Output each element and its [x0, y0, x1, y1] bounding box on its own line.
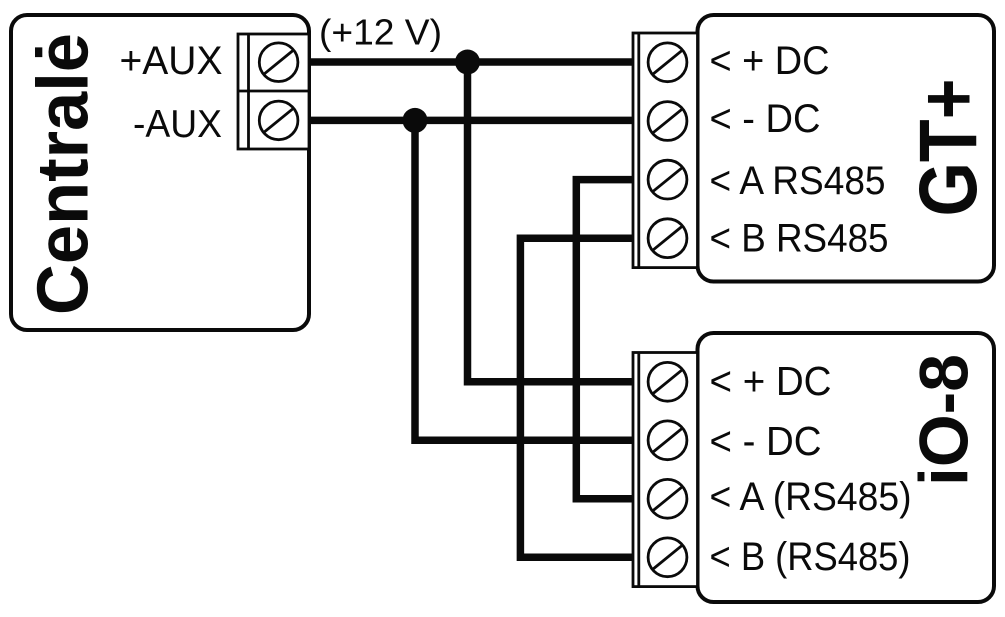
svg-text:< B (RS485): < B (RS485) [710, 535, 911, 579]
svg-text:Centralė: Centralė [23, 33, 104, 315]
terminal block X3 on iO-8 [633, 353, 698, 587]
terminal block X2 on GT+ [633, 33, 698, 268]
screw terminal GT+ +DC [648, 43, 687, 82]
junction J2 (GND) [403, 108, 428, 133]
terminal block X1 on Centrale [238, 34, 309, 149]
svg-text:(+12 V): (+12 V) [319, 12, 442, 53]
svg-text:< + DC: < + DC [710, 39, 830, 83]
svg-text:< A RS485: < A RS485 [710, 159, 886, 203]
screw terminal iO-8 B RS485 [648, 538, 687, 577]
box iO-8 (expander module) [698, 333, 995, 602]
box GT+ (expander module) [698, 15, 995, 282]
wire GND branch: junction to iO-8 -DC [415, 120, 634, 440]
screw terminal iO-8 -DC [648, 421, 687, 460]
svg-text:< - DC: < - DC [710, 97, 821, 141]
svg-text:iO-8: iO-8 [906, 354, 983, 486]
junction J1 (+12V) [455, 50, 480, 75]
screw terminal GT+ B RS485 [648, 219, 687, 258]
screw terminal -AUX [259, 101, 298, 140]
wire +12V branch: junction to iO-8 +DC [468, 62, 635, 382]
screw terminal +AUX [259, 43, 298, 82]
svg-text:< A (RS485): < A (RS485) [710, 475, 912, 519]
svg-text:-AUX: -AUX [133, 103, 222, 146]
screw terminal GT+ A RS485 [648, 160, 687, 199]
wire +12V: Centrale +AUX to GT+ +DC [309, 58, 634, 66]
wire GND: Centrale -AUX to GT+ -DC [309, 117, 634, 125]
svg-text:GT+: GT+ [903, 79, 994, 217]
screw terminal iO-8 A RS485 [648, 479, 687, 518]
svg-text:< B RS485: < B RS485 [710, 217, 889, 261]
wire RS485 B: GT+ B to iO-8 B [520, 238, 634, 557]
screw terminal GT+ -DC [648, 102, 687, 141]
svg-text:+AUX: +AUX [120, 39, 223, 83]
wire RS485 A: GT+ A to iO-8 A [576, 180, 634, 499]
svg-text:< + DC: < + DC [710, 358, 832, 404]
svg-text:< - DC: < - DC [710, 418, 822, 464]
screw terminal iO-8 +DC [648, 362, 687, 401]
box Centrale (control panel) [11, 15, 309, 330]
